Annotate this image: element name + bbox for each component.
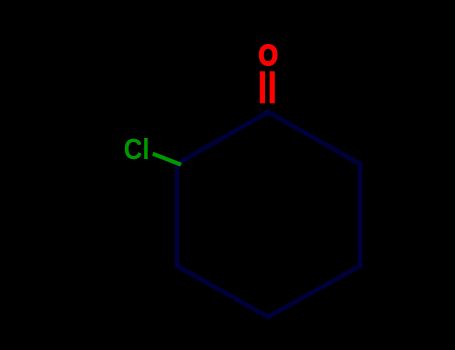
wire ring bond C4-C5 <box>268 266 360 317</box>
wire ring bond C2-C3 <box>175 164 180 266</box>
wire ring bond C1-C2 <box>177 112 268 164</box>
bond C2-Cl <box>153 154 181 165</box>
wire ring bond C5-C6 <box>358 164 363 266</box>
ring: cyclohexane hexagon <box>177 112 360 317</box>
wire ring bond C3-C4 <box>177 266 268 317</box>
wire ring bond C6-C1 <box>268 112 360 164</box>
svg-text:Cl: Cl <box>124 133 150 166</box>
carbonyl double bond C=O <box>260 71 275 103</box>
svg-text:O: O <box>258 40 277 72</box>
